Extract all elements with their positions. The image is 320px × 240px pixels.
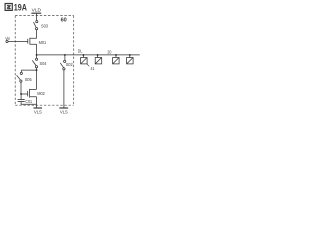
wire M02 drain up to node — [36, 70, 38, 89]
VLS terminal left — [33, 107, 42, 109]
wire gate lead M02 — [21, 93, 28, 95]
svg-text:S05: S05 — [25, 77, 32, 82]
svg-text:Vin: Vin — [5, 36, 10, 41]
capacitor C01 — [18, 100, 25, 102]
svg-text:VLS: VLS — [60, 110, 68, 116]
wire VLD to S03 — [36, 13, 38, 20]
svg-text:20: 20 — [107, 49, 111, 54]
wire C01 bottom to VLS — [21, 102, 36, 105]
VLS terminal right — [59, 107, 68, 109]
pixel cell 4 — [129, 54, 131, 56]
pixel cell 2 — [97, 54, 99, 56]
pixel cell 3 — [115, 54, 117, 56]
svg-text:S02: S02 — [66, 62, 73, 67]
wire S02 to VLS — [63, 70, 65, 108]
wire S04 to node — [36, 68, 38, 70]
svg-text:S03: S03 — [41, 23, 48, 28]
wire S03 to M01 — [36, 30, 38, 39]
wire C01 top — [20, 94, 22, 99]
switch S02 — [60, 60, 65, 70]
dashed block 60 — [15, 16, 73, 106]
pixel cell 1 — [82, 54, 84, 56]
figure title 图19A — [5, 4, 12, 11]
svg-text:60: 60 — [61, 18, 67, 24]
node gate M02 / C01 — [20, 93, 22, 95]
svg-text:S04: S04 — [40, 61, 47, 66]
data line DL bus — [37, 54, 140, 56]
wire Vin to gate — [8, 41, 28, 43]
transistor M01 — [28, 38, 37, 55]
svg-text:41: 41 — [91, 66, 95, 71]
wire node to S05 — [22, 70, 37, 72]
svg-text:M01: M01 — [39, 40, 47, 45]
svg-text:VLD: VLD — [32, 7, 42, 12]
label 41 leader — [87, 64, 89, 66]
svg-text:M02: M02 — [37, 91, 45, 96]
svg-text:VLS: VLS — [34, 110, 42, 116]
wire S05 to gate node — [20, 82, 22, 94]
node: bus junction — [36, 54, 38, 56]
switch S04 — [32, 55, 37, 68]
node S02 junction — [64, 54, 66, 56]
svg-text:19A: 19A — [14, 2, 27, 12]
transistor M02 — [28, 89, 37, 108]
svg-text:DL: DL — [78, 49, 83, 54]
switch S03 — [34, 21, 38, 30]
switch S05 — [17, 72, 23, 82]
node M02 drain / S05 — [36, 69, 38, 71]
svg-text:C01: C01 — [25, 99, 32, 104]
wire bus to S02 — [64, 55, 66, 60]
